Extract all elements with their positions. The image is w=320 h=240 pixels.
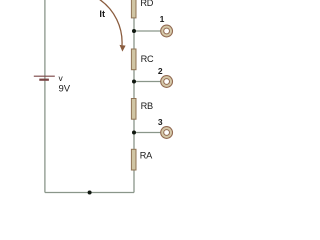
battery V short plate — [39, 79, 49, 81]
wire left vertical (battery branch) — [44, 0, 46, 193]
battery V long plate — [34, 75, 55, 77]
junction node bottom — [88, 191, 92, 195]
wire to terminal 3 — [134, 132, 161, 134]
current arrow It (head) — [120, 45, 126, 52]
svg-text:It: It — [99, 9, 105, 19]
svg-text:1: 1 — [160, 14, 165, 24]
resistor RA — [131, 149, 153, 170]
svg-text:RA: RA — [140, 151, 153, 161]
wire to terminal 1 — [134, 30, 161, 32]
junction node 2 — [132, 80, 136, 84]
svg-text:9V: 9V — [59, 84, 71, 95]
junction node 3 — [132, 131, 136, 135]
svg-text:RD: RD — [140, 0, 153, 8]
resistor RD (top cropped) — [131, 0, 153, 18]
resistor RC — [131, 49, 154, 70]
svg-text:RC: RC — [141, 54, 154, 64]
wire right vertical (resistor chain) — [133, 0, 135, 193]
terminal 1 connector — [161, 25, 173, 37]
svg-text:v: v — [59, 73, 64, 83]
resistor RB — [131, 99, 153, 120]
svg-text:3: 3 — [158, 117, 163, 127]
svg-text:2: 2 — [158, 66, 163, 76]
junction node 1 — [132, 29, 136, 33]
terminal 3 connector — [161, 127, 173, 139]
current arrow It (arc) — [100, 0, 122, 45]
wire to terminal 2 — [134, 81, 161, 83]
svg-text:RB: RB — [141, 101, 153, 111]
terminal 2 connector — [161, 76, 173, 88]
wire bottom horizontal — [45, 192, 134, 194]
